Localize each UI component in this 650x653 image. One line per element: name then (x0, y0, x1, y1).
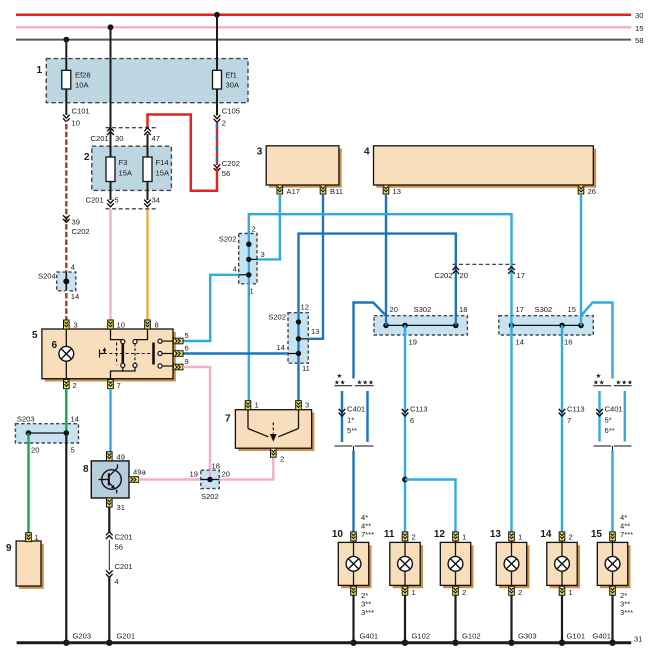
wire B11 to S202b pin13 (308, 194, 323, 339)
svg-text:20: 20 (31, 446, 39, 455)
lamp 14 bottom pin (559, 586, 573, 597)
svg-text:12: 12 (434, 529, 446, 540)
svg-text:3: 3 (74, 321, 78, 330)
splice S202c (201, 462, 230, 502)
svg-text:14: 14 (71, 415, 79, 424)
lamp 14 top pin (559, 532, 573, 542)
svg-text:1: 1 (35, 533, 39, 542)
svg-text:B11: B11 (330, 187, 343, 196)
brown wire S204 to pin3 box5 (65, 291, 67, 320)
svg-text:S302: S302 (414, 305, 432, 314)
cyan wire S202a pin1 to box7 pin1 (248, 284, 250, 401)
svg-text:G303: G303 (518, 632, 537, 641)
svg-text:15: 15 (591, 529, 603, 540)
lamp 11 ground wire (404, 595, 406, 643)
splice S302a (374, 305, 467, 347)
svg-text:4: 4 (115, 577, 119, 586)
svg-text:47: 47 (152, 134, 160, 143)
fuse F3 15A (106, 157, 133, 182)
svg-text:30: 30 (635, 11, 643, 20)
splice S202a (219, 225, 265, 296)
ground G101 (559, 632, 585, 646)
connector C201 bottom dashed line (86, 196, 160, 209)
cyan wire S302a pin19 to lamp11 (C113-6) (404, 325, 406, 532)
lamp 13 bottom pin (509, 586, 523, 597)
svg-text:C101: C101 (72, 107, 90, 116)
svg-text:C202: C202 (434, 271, 452, 280)
ground G102 (452, 632, 480, 646)
svg-text:10: 10 (332, 529, 344, 540)
connector C202 mid dashed line (434, 264, 525, 280)
svg-text:14: 14 (71, 292, 79, 301)
lamp 10 variant labels (361, 513, 374, 617)
ground G203 (63, 632, 91, 646)
svg-text:6**: 6** (605, 426, 615, 435)
svg-text:49a: 49a (133, 468, 146, 477)
green wire box5 pin2 to S203 (65, 389, 67, 424)
svg-text:14: 14 (516, 338, 524, 347)
ground G401 (350, 632, 378, 646)
lamp 10 top pin (351, 532, 357, 541)
wire Ef1 to C105 (216, 89, 218, 116)
box5 pin 7 (108, 380, 121, 390)
S302b inner wire and dots (509, 316, 584, 335)
fuse box 2 (84, 146, 171, 190)
variant merge bracket left (335, 446, 374, 451)
wire F3 to C201-5 (110, 182, 112, 201)
cyan wire S202a pin2 to C202-17 (249, 214, 512, 316)
svg-text:20: 20 (390, 305, 398, 314)
svg-text:18: 18 (212, 462, 220, 471)
connector C401 right stub A (596, 391, 622, 442)
wire 15-line through box1 to C201-30 (110, 27, 112, 128)
svg-text:2: 2 (73, 381, 77, 390)
svg-text:49: 49 (117, 453, 125, 462)
svg-text:2: 2 (462, 588, 466, 597)
svg-text:C105: C105 (222, 107, 240, 116)
svg-text:20: 20 (460, 271, 468, 280)
svg-text:17: 17 (516, 305, 524, 314)
svg-text:6: 6 (410, 416, 414, 425)
red wire C202-56 to fuse F14 (feed) (148, 115, 218, 191)
svg-text:10: 10 (117, 321, 125, 330)
chevron C202 pin20 (453, 267, 460, 274)
svg-text:5**: 5** (347, 426, 357, 435)
svg-text:G101: G101 (567, 632, 586, 641)
variant split lines left (335, 385, 374, 387)
box5 pin 6 (173, 344, 188, 357)
svg-text:7: 7 (225, 414, 231, 425)
svg-text:C401: C401 (347, 405, 365, 414)
lamp 10 (332, 529, 372, 588)
cyan wire box5 pin7 to box8 pin49 (109, 389, 111, 452)
svg-text:S202: S202 (201, 492, 219, 501)
chevron C201 pin47 (144, 128, 151, 135)
svg-text:1: 1 (255, 401, 259, 410)
S302a inner wire and dots (383, 316, 458, 335)
svg-text:S302: S302 (535, 305, 553, 314)
svg-text:3***: 3*** (620, 608, 633, 617)
connector C201 pin4 chevron down (106, 562, 133, 586)
svg-text:20: 20 (222, 470, 230, 479)
bus line 15 (16, 24, 643, 33)
green wire S203 pin20 to box9 (27, 443, 29, 533)
box5 lever indicator A (100, 347, 107, 357)
svg-text:1: 1 (569, 588, 573, 597)
svg-text:56: 56 (222, 169, 230, 178)
svg-text:5*: 5* (605, 416, 612, 425)
svg-text:Ef28: Ef28 (75, 71, 91, 80)
relay box 9 (6, 541, 44, 589)
svg-text:C113: C113 (567, 405, 585, 414)
lamp 15 bottom pin (610, 586, 616, 595)
pink wire C201-5 to box5 pin10 (109, 210, 111, 321)
black wire S203 pin5 to G203 (65, 433, 67, 643)
svg-text:1*: 1* (347, 416, 354, 425)
switch box 5 (32, 329, 176, 382)
svg-text:2: 2 (569, 533, 573, 542)
svg-text:19: 19 (190, 470, 198, 479)
svg-text:S204: S204 (38, 272, 56, 281)
svg-text:31: 31 (634, 635, 642, 644)
svg-text:31: 31 (117, 503, 125, 512)
cyan branch S302b pin15 to C401b (581, 303, 613, 379)
svg-text:G201: G201 (117, 632, 136, 641)
chevron C201 pin34 (144, 200, 151, 207)
variant split lines right (594, 385, 632, 387)
svg-text:15A: 15A (156, 169, 170, 178)
svg-text:6: 6 (52, 340, 58, 351)
svg-text:30A: 30A (226, 81, 240, 90)
pink wire S202c pin20 to box7 pin2 (219, 457, 273, 479)
box5 pin 2 (64, 380, 77, 390)
connector C202 pin 39 (63, 215, 90, 236)
connector C101 pin 10 (63, 107, 90, 128)
svg-text:18: 18 (459, 305, 467, 314)
svg-text:F14: F14 (156, 158, 169, 167)
svg-text:7: 7 (567, 416, 571, 425)
svg-text:12: 12 (301, 303, 309, 312)
fuse Ef1 30A (213, 70, 240, 89)
ecu box 4 (364, 146, 596, 188)
lamp 13 top pin (509, 532, 523, 542)
svg-text:14: 14 (540, 529, 552, 540)
fuse box U1 (box 1) (37, 59, 249, 103)
box3 pin A17 (277, 185, 300, 196)
lamp 10 ground wire (352, 595, 354, 643)
svg-text:3: 3 (257, 147, 263, 158)
svg-text:C202: C202 (222, 159, 240, 168)
svg-text:3: 3 (305, 401, 309, 410)
svg-text:C401: C401 (605, 405, 623, 414)
box8 pin 31 (107, 498, 125, 512)
svg-text:34: 34 (152, 196, 160, 205)
bus line 30 (16, 11, 643, 20)
svg-text:G401: G401 (360, 632, 379, 641)
lamp 14 ground wire (561, 595, 563, 643)
svg-text:2: 2 (518, 588, 522, 597)
svg-text:S203: S203 (17, 415, 35, 424)
wire box4-13 to S302a pin20 (385, 194, 387, 325)
connector C105 pin 2 (214, 107, 240, 128)
lamp 13 ground wire (510, 595, 512, 643)
svg-text:A17: A17 (287, 187, 301, 196)
variant merge bracket right (594, 446, 632, 451)
svg-text:5: 5 (185, 331, 189, 340)
svg-text:19: 19 (409, 338, 417, 347)
box5 switch internals (111, 329, 148, 379)
svg-text:16: 16 (564, 338, 572, 347)
S202a inner wire and dots (239, 234, 257, 284)
cyan wire C401b to lamp15 (611, 451, 613, 532)
ground G401 (592, 632, 615, 646)
black wire box8 pin31 down (108, 507, 110, 533)
lamp 15 (591, 529, 631, 588)
svg-text:G102: G102 (462, 632, 481, 641)
svg-text:10: 10 (72, 119, 80, 128)
svg-text:1: 1 (518, 533, 522, 542)
brown wire C101 to S204 (65, 122, 67, 272)
svg-text:58: 58 (635, 36, 643, 45)
box8 pin 49 (107, 452, 125, 462)
svg-text:5: 5 (32, 330, 38, 341)
svg-text:G203: G203 (73, 632, 92, 641)
svg-text:15: 15 (635, 24, 643, 33)
ground G201 (106, 632, 135, 646)
svg-text:30: 30 (115, 134, 123, 143)
svg-text:56: 56 (115, 543, 123, 552)
lamp 14 (540, 529, 580, 588)
box8 transistor symbol (99, 464, 122, 493)
svg-text:1: 1 (37, 65, 43, 76)
svg-text:7: 7 (117, 381, 121, 390)
chevron C201 pin30 (107, 128, 114, 135)
pink wire box5 pin9 to S202c pin18 (183, 367, 210, 470)
sensor box 8 (83, 461, 129, 498)
lamp 11 top pin (402, 532, 416, 542)
buzzer box 7 (225, 410, 314, 451)
svg-text:C201: C201 (115, 533, 133, 542)
svg-text:C201: C201 (115, 562, 133, 571)
svg-text:4: 4 (364, 147, 370, 158)
lamp 15 variant labels (620, 513, 633, 617)
wire to fuse F14 (147, 134, 149, 157)
svg-text:2: 2 (412, 533, 416, 542)
svg-text:13: 13 (311, 327, 319, 336)
svg-text:C201: C201 (86, 196, 104, 205)
fuse Ef28 10A (62, 70, 91, 89)
box4 pin 26 (578, 185, 596, 196)
lamp 12 ground wire (454, 595, 456, 643)
node junction on 30 (214, 12, 220, 18)
box5 pin 8 (145, 320, 159, 330)
lamp 13 (490, 529, 530, 588)
dark blue wire S202b pin11 to box7 pin3 (297, 363, 299, 401)
ground G102 (402, 632, 430, 646)
junction and branch to lamp12 (402, 477, 455, 532)
C401 right stub B (624, 391, 626, 442)
connector C401 left stub A (339, 391, 365, 442)
svg-text:9: 9 (185, 357, 189, 366)
S203 inner wires and dots (26, 424, 69, 443)
svg-text:39: 39 (72, 218, 80, 227)
svg-text:8: 8 (83, 464, 89, 475)
svg-text:4: 4 (233, 265, 237, 274)
svg-text:4: 4 (71, 263, 75, 272)
box9 pin 1 (26, 533, 39, 542)
svg-text:3***: 3*** (361, 608, 374, 617)
svg-text:26: 26 (588, 187, 596, 196)
cyan wire S202a pin4 to box5 pin5 (183, 275, 239, 341)
lamp 15 top pin (610, 532, 616, 541)
svg-text:C201: C201 (91, 134, 109, 143)
node junction on 15 (108, 24, 114, 30)
box5 pin 3 (64, 320, 78, 330)
svg-text:8: 8 (155, 321, 159, 330)
thin wire C201-56 to C201-4 (108, 540, 110, 571)
red/blue striped wire C105 to C202-56 (216, 122, 218, 165)
C401 left stub B (366, 391, 368, 442)
svg-text:F3: F3 (119, 158, 128, 167)
svg-text:15: 15 (568, 305, 576, 314)
svg-text:5: 5 (71, 446, 75, 455)
splice S202b (268, 303, 319, 374)
svg-text:13: 13 (490, 529, 502, 540)
box8 pin 49a (129, 468, 146, 483)
lamp 15 ground wire (611, 595, 613, 643)
variant stars right (593, 373, 633, 387)
svg-text:C113: C113 (410, 405, 428, 414)
svg-text:7***: 7*** (620, 530, 633, 539)
cyan wire S302b pin14 to lamp13 (510, 325, 512, 532)
svg-text:9: 9 (6, 543, 12, 554)
fuse F14 15A (143, 157, 170, 182)
lamp 12 bottom pin (453, 586, 467, 597)
svg-text:15A: 15A (119, 169, 133, 178)
connector C113 pin 7 (559, 405, 585, 426)
chevron C202 pin17 (508, 267, 515, 274)
svg-text:13: 13 (393, 187, 401, 196)
box5 mechanical link dashed (104, 343, 151, 365)
svg-text:2: 2 (84, 152, 90, 163)
wire to fuse F3 (110, 128, 112, 157)
box5 pin 9 (173, 357, 188, 370)
box5 rotary contact bar (154, 339, 174, 368)
svg-text:6: 6 (185, 344, 189, 353)
svg-text:2: 2 (222, 119, 226, 128)
splice S203 (15, 415, 79, 455)
box5 pin 5 (173, 331, 188, 344)
chevron C201 pin5 (107, 200, 114, 207)
box7 pin 3 (296, 401, 310, 410)
wire F14 to C201-34 (147, 182, 149, 201)
box3 pin B11 (320, 185, 343, 196)
dark blue wire node S202b-12 to C202-20 (299, 234, 456, 316)
connector C202 pin 56 (214, 159, 240, 178)
connector C201 pin56 chevron up (106, 532, 133, 552)
wire box4-26 to S302b pin15 (580, 194, 582, 325)
svg-text:1: 1 (412, 588, 416, 597)
svg-text:11: 11 (384, 529, 395, 540)
svg-text:Ef1: Ef1 (226, 71, 237, 80)
svg-text:5: 5 (115, 196, 119, 205)
pink wire 49a to S202c pin19 (139, 478, 201, 480)
lamp 11 bottom pin (402, 586, 416, 597)
wire 58-line to Ef28 (65, 40, 67, 71)
splice S204 (38, 263, 79, 301)
dark blue wire C401a to lamp10 (352, 451, 354, 532)
lamp 12 (434, 529, 474, 588)
lamp 10 bottom pin (351, 586, 357, 595)
svg-text:C202: C202 (72, 227, 90, 236)
black wire C201-4 to G201 (108, 578, 110, 643)
svg-text:2: 2 (252, 225, 256, 234)
box5 pin 10 (108, 320, 125, 330)
cyan wire S302b pin16 to lamp14 (C113-7) (561, 325, 563, 532)
connector C201 top dashed line (91, 128, 160, 143)
bus line 58 (16, 36, 643, 45)
svg-text:2: 2 (280, 455, 284, 464)
ground bus 31 (17, 635, 643, 644)
splice S302b (499, 305, 594, 347)
svg-text:3: 3 (261, 250, 265, 259)
box4 pin 13 (383, 185, 401, 196)
yellow wire C201-34 to box5 pin8 (146, 210, 148, 321)
svg-text:S202: S202 (268, 313, 286, 322)
svg-text:G401: G401 (592, 632, 611, 641)
dark blue branch S302a pin20 to C401a (354, 303, 387, 379)
wire A17 to S202a pin3 (257, 194, 280, 259)
box7 internals (248, 410, 299, 442)
ground G303 (508, 632, 536, 646)
variant stars left (334, 373, 374, 387)
svg-text:G102: G102 (412, 632, 431, 641)
svg-text:1: 1 (462, 533, 466, 542)
svg-text:7***: 7*** (361, 530, 374, 539)
lamp 12 top pin (453, 532, 467, 542)
svg-text:10A: 10A (75, 81, 89, 90)
node junction on 58 (63, 37, 69, 43)
box7 pin 1 (245, 401, 259, 410)
svg-text:S202: S202 (219, 235, 237, 244)
svg-text:14: 14 (277, 343, 285, 352)
connector C113 pin 6 (402, 405, 428, 426)
lamp 6 illumination (52, 329, 74, 379)
dark blue wire box5 pin6 to S202b pin14 (183, 352, 288, 354)
svg-text:11: 11 (302, 364, 310, 373)
lamp 11 (384, 529, 423, 588)
svg-text:17: 17 (517, 271, 525, 280)
svg-text:1: 1 (250, 287, 254, 296)
S202b inner wire and dots (288, 313, 308, 364)
wire 30-line to Ef1 (216, 15, 218, 71)
ecu box 3 (257, 146, 342, 188)
wire Ef28 to C101 (65, 89, 67, 115)
box7 pin 2 (271, 448, 285, 463)
